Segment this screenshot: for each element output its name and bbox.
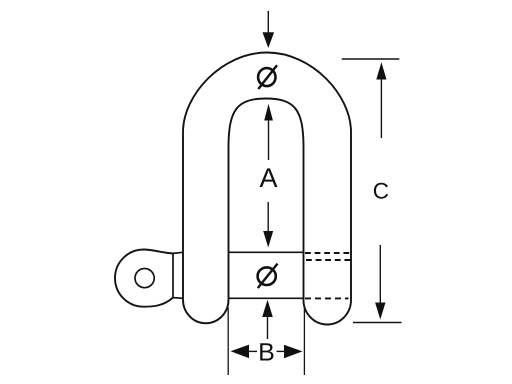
diameter symbol pin [258, 264, 278, 288]
pin shank top edge [229, 251, 304, 253]
dimension C upper arrowhead [376, 62, 386, 79]
dimension C upper shaft [380, 79, 382, 138]
dimension B right shaft [277, 350, 285, 352]
svg-text:C: C [373, 178, 389, 203]
extension line C top [342, 58, 400, 60]
dimension C lower shaft [379, 245, 381, 303]
dimension B left shaft [248, 350, 257, 352]
hidden pin line lower (dashed) [305, 297, 349, 299]
svg-text:A: A [259, 163, 277, 193]
top diameter arrow shaft [267, 11, 269, 33]
pin head eye circle [115, 250, 173, 307]
pin collar flange [173, 252, 183, 298]
dimension A lower arrowhead [263, 231, 273, 248]
svg-text:B: B [258, 338, 275, 366]
extension line B right [303, 308, 305, 376]
dimension C lower arrowhead [375, 303, 385, 320]
diameter symbol top [258, 65, 277, 89]
dimension B right arrowhead [284, 345, 303, 359]
shackle body outline (bow with two legs) [183, 53, 351, 325]
dimension B pin shaft [267, 317, 269, 340]
dimension B left arrowhead [231, 345, 250, 359]
dimension A upper shaft [268, 120, 270, 160]
dimension A lower shaft [267, 202, 269, 232]
dimension B pin arrowhead [262, 300, 273, 317]
extension line C bottom [353, 322, 402, 324]
pin head hole [135, 269, 154, 288]
pin shank bottom edge [229, 297, 304, 299]
hidden pin line upper (dashed) [305, 252, 351, 254]
top diameter arrowhead [263, 32, 275, 48]
extension line B left [227, 308, 229, 376]
hidden pin line second (dashed) [306, 259, 351, 261]
dimension A upper arrowhead [264, 104, 273, 121]
